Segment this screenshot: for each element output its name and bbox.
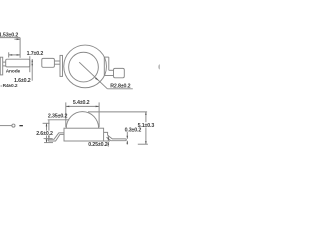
tick y142.6 [44, 142, 53, 144]
arrowhead left 5.4 [66, 106, 70, 108]
top view: right tab top [104, 56, 109, 58]
arrowhead up 0.3 [127, 141, 129, 144]
dimension text 5.4±0.2 [73, 100, 90, 106]
tick y144.2 [138, 143, 148, 145]
svg-text:5.1±0.3: 5.1±0.3 [138, 123, 155, 129]
top view: left lead pad [42, 58, 55, 67]
radius leader arrowhead [95, 78, 99, 81]
dimension text 1.4±0.2 [14, 78, 31, 84]
dim 0.3 lower segment [126, 141, 128, 145]
tick y123.3 [43, 122, 50, 124]
top view: right tab right edge [108, 57, 110, 70]
arrowhead up 1.4 [31, 59, 33, 62]
dimension arrow line 1.53 [14, 38, 19, 40]
extension line right x99.1 [98, 102, 100, 127]
side view: body bottom extension right [104, 140, 110, 142]
top view: left neck top [54, 60, 60, 62]
dimension line vertical 1.4 [31, 59, 33, 81]
side view: neck top line [3, 61, 6, 63]
top view: right neck top [109, 69, 114, 71]
arrowhead up A [46, 123, 48, 126]
dimension underline for 1.53 [0, 37, 20, 39]
polarity symbol dash [19, 125, 23, 126]
polarity symbol lead line [0, 125, 12, 127]
arrowhead down 0.3 [127, 136, 129, 139]
radius text underline [107, 88, 132, 90]
dimension text R4±0.2 [3, 83, 18, 89]
dimension text 2.35±0.2 [48, 113, 68, 119]
arrowhead up 0.25 [108, 142, 110, 145]
dimension text 1.53±0.2 [0, 33, 18, 39]
svg-text:0.25±0.2: 0.25±0.2 [88, 142, 108, 148]
side view: right lead bent [107, 135, 127, 141]
top view: left neck bottom [54, 63, 60, 65]
svg-text:5.4±0.2: 5.4±0.2 [73, 100, 90, 106]
dimension text 0.3±0.2 [125, 127, 142, 133]
top view: inner circle [69, 52, 99, 82]
extension tick x8.7 [8, 52, 10, 57]
arrowhead down B [48, 136, 50, 139]
svg-text:2.35±0.2: 2.35±0.2 [48, 113, 68, 119]
dimension vertical A x46.5 [46, 123, 48, 142]
arrowhead down 1.4 [31, 64, 33, 67]
top view: outer circle [64, 45, 107, 88]
label Anode [6, 69, 21, 75]
svg-text:R2.8±0.2: R2.8±0.2 [110, 83, 130, 89]
dim 0.25 upper segment [107, 135, 109, 140]
top view: right neck bottom [104, 75, 113, 77]
polarity symbol circle [12, 124, 15, 127]
side view: lens dome [66, 112, 98, 129]
leader dash before R4 [1, 85, 3, 87]
dimension text R2.8±0.2 [110, 83, 130, 89]
dimension line 1.7±0.2 [9, 54, 20, 56]
arrowhead up 5.1 [145, 112, 147, 115]
side view: package body [64, 128, 104, 141]
side view: left lead bent [48, 133, 64, 141]
side view: neck bottom line [3, 65, 6, 67]
extension line vertical x20 [19, 38, 21, 58]
side view: right step [104, 132, 108, 135]
dim 0.3 upper segment [126, 132, 128, 139]
arrowhead left 1.7 [9, 54, 13, 56]
svg-text:2.6±0.2: 2.6±0.2 [36, 131, 53, 137]
svg-text:Anode: Anode [6, 69, 21, 75]
extension vertical B x48.9 [48, 120, 50, 139]
arrowhead down 0.25 [108, 138, 110, 141]
extension line vertical x29.8 [29, 56, 31, 72]
dimension text 2.6±0.2 [36, 131, 54, 137]
arrowhead down 5.1 [145, 141, 147, 144]
top view: right lead pad [114, 68, 125, 77]
tick y111.4 [88, 111, 147, 113]
side view: tab edge-on [0, 57, 2, 75]
arrowhead down A [46, 140, 48, 143]
label underline 2.35 [48, 119, 69, 121]
side view: anode lead body [6, 59, 30, 67]
svg-text:R4±0.2: R4±0.2 [3, 83, 18, 89]
dim 0.25 lower segment [107, 142, 109, 147]
tick y138.6 [44, 138, 53, 140]
arrowhead right 1.53 [17, 38, 21, 40]
arrowhead right 1.7 [17, 54, 21, 56]
top view: left tab [60, 55, 63, 76]
radius leader line R2.8 [79, 62, 107, 89]
svg-text:1.7±0.2: 1.7±0.2 [27, 51, 44, 57]
dimension text 5.1±0.3 [137, 122, 155, 129]
right edge smudge [158, 64, 162, 69]
dimension line 5.4 [66, 105, 99, 107]
extension line left x65.8 [65, 102, 67, 127]
dimension text 0.25±0.2 [88, 142, 108, 148]
arrowhead right 5.4 [96, 106, 100, 108]
dimension vertical 5.1 [145, 112, 147, 144]
top view: right tab left edge [103, 57, 105, 75]
dimension text 1.7±0.2 [27, 51, 44, 57]
